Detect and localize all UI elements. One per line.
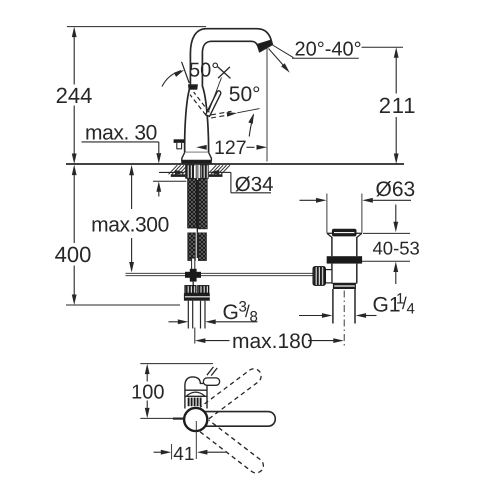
svg-text:40-53: 40-53 xyxy=(373,238,420,259)
svg-text:max. 30: max. 30 xyxy=(85,121,157,144)
svg-text:20°-40°: 20°-40° xyxy=(295,38,362,60)
svg-text:max.180: max.180 xyxy=(232,330,313,353)
svg-text:50°: 50° xyxy=(229,83,261,106)
svg-text:41: 41 xyxy=(173,444,194,465)
svg-text:8: 8 xyxy=(250,309,258,326)
svg-text:100: 100 xyxy=(131,381,164,403)
svg-text:244: 244 xyxy=(56,83,93,108)
svg-text:4: 4 xyxy=(407,301,415,318)
svg-text:max.300: max.300 xyxy=(91,213,169,236)
svg-text:Ø34: Ø34 xyxy=(235,173,274,196)
svg-text:G: G xyxy=(223,301,239,324)
svg-text:50°: 50° xyxy=(189,59,219,81)
svg-text:Ø63: Ø63 xyxy=(376,178,416,201)
svg-text:400: 400 xyxy=(55,242,92,267)
svg-text:127: 127 xyxy=(214,137,247,159)
svg-text:211: 211 xyxy=(379,93,416,118)
